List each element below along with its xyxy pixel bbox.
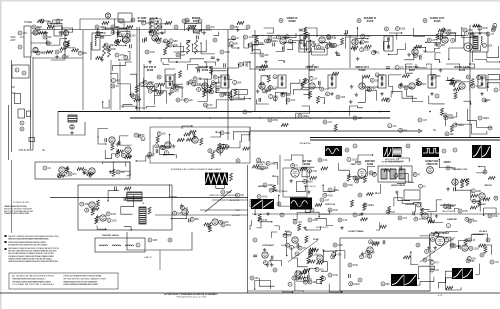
tube tube V11 [352, 39, 358, 45]
wire [306, 41, 314, 50]
svg-text:R: R [258, 159, 260, 162]
transformer 1st IF [92, 33, 100, 50]
resistor resistor R164 [445, 132, 454, 136]
wire [50, 23, 62, 28]
capacitor C9 [441, 33, 443, 37]
svg-text:R: R [451, 244, 453, 247]
svg-text:R: R [415, 218, 417, 221]
tube tube V34 [427, 167, 434, 174]
junction [461, 27, 462, 28]
svg-text:3.3K: 3.3K [312, 171, 317, 173]
capacitor capacitor C60 [310, 208, 314, 212]
syncroguide transformer [139, 207, 146, 224]
resistor R64 [303, 269, 310, 272]
ground [353, 47, 357, 51]
svg-text:470K: 470K [493, 216, 499, 218]
resistor resistor R143 [115, 153, 119, 157]
capacitor C13 [118, 141, 120, 145]
capacitor capacitor C18 [360, 40, 369, 44]
svg-text:C: C [420, 185, 422, 188]
vert osc box [283, 168, 307, 197]
junction [410, 251, 411, 252]
resistor resistor R15 [478, 26, 488, 30]
wire [241, 127, 250, 143]
capacitor capacitor C98 [233, 80, 242, 84]
resistor R2 [47, 26, 54, 29]
tube tube V9 [280, 38, 286, 44]
ground [356, 57, 360, 61]
capacitor C16 [454, 187, 456, 191]
capacitor C8 [330, 43, 332, 47]
junction [173, 46, 174, 47]
capacitor capacitor C47 [453, 148, 457, 152]
resistor resistor R3 [20, 127, 24, 131]
svg-text:R: R [158, 40, 160, 43]
wire [264, 28, 274, 33]
resistor R13 [415, 45, 422, 48]
waveform photo W7 [251, 199, 274, 209]
svg-text:1MEG: 1MEG [358, 178, 365, 180]
capacitor capacitor C56 [303, 179, 313, 183]
svg-text:10K: 10K [162, 134, 167, 136]
svg-text:68K: 68K [174, 41, 179, 43]
tube tube V31 [212, 219, 218, 225]
capacitor capacitor C33 [416, 82, 426, 86]
ground [95, 218, 99, 222]
svg-text:C: C [491, 261, 493, 264]
svg-text:C: C [354, 214, 356, 217]
resistor R5 [165, 22, 172, 25]
tube tube V10 [319, 37, 325, 43]
resistor R98 [177, 139, 184, 142]
svg-text:R: R [266, 40, 268, 43]
wire [212, 68, 226, 75]
resistor resistor R58 [298, 114, 309, 118]
resistor R126 [148, 207, 151, 214]
wire [207, 100, 232, 108]
resistor R83 [255, 35, 258, 42]
resistor resistor R117 [62, 55, 70, 59]
wire [68, 43, 75, 48]
resistor resistor R161 [366, 250, 376, 254]
svg-text:AGC: AGC [285, 230, 290, 233]
wire [446, 64, 460, 69]
capacitor C34 [260, 83, 264, 85]
resistor resistor R165 [450, 243, 454, 247]
junction [413, 203, 414, 204]
svg-text:RES ISOLATION AT ALL NORMAL TH: RES ISOLATION AT ALL NORMAL THIS AT ALL … [8, 252, 55, 255]
capacitor capacitor C5 [22, 71, 26, 75]
svg-text:.047: .047 [194, 82, 199, 84]
junction [283, 61, 284, 62]
svg-text:HEIGHT: HEIGHT [258, 186, 267, 188]
svg-text:1500: 1500 [364, 50, 370, 52]
resistor R31 [184, 133, 191, 136]
resistor resistor R141 [148, 152, 156, 156]
capacitor C32 [386, 67, 390, 69]
capacitor capacitor C107 [447, 204, 456, 208]
capacitor capacitor C97 [172, 85, 182, 89]
svg-text:R: R [267, 162, 269, 165]
svg-text:470K: 470K [273, 120, 279, 122]
svg-text:68K: 68K [235, 27, 240, 29]
capacitor C28 [187, 81, 189, 85]
phase det coil a [381, 169, 387, 179]
waveform photo W3 [393, 147, 402, 157]
junction [188, 30, 189, 31]
svg-text:R: R [112, 26, 114, 29]
capacitor capacitor C55 [221, 223, 231, 227]
resistor resistor R129 [213, 75, 223, 79]
svg-text:R: R [481, 254, 483, 257]
wire [51, 59, 65, 61]
wire [189, 26, 197, 31]
wire [436, 230, 458, 233]
phase det coil b [390, 169, 396, 179]
capacitor capacitor C72 [289, 245, 299, 249]
svg-text:R: R [337, 96, 339, 99]
junction [367, 38, 368, 39]
resistor resistor R101 [250, 276, 259, 280]
capacitor capacitor C3 [46, 41, 50, 45]
svg-text:3.3K: 3.3K [370, 252, 375, 254]
wire [172, 80, 182, 84]
junction [204, 89, 205, 90]
svg-text:470K: 470K [111, 214, 117, 216]
capacitor capacitor C29 [192, 82, 202, 86]
svg-text:R: R [324, 121, 326, 124]
svg-text:TRANSFORMER VOLTAGE OHMS: TRANSFORMER VOLTAGE OHMS [4, 212, 30, 215]
wire [305, 28, 317, 36]
inductor inductor L1 [15, 68, 19, 72]
resistor R14 [135, 85, 138, 92]
resistor R124 [77, 167, 84, 170]
wire [232, 44, 239, 48]
svg-text:C: C [354, 117, 356, 120]
resistor resistor R128 [211, 81, 221, 85]
capacitor capacitor C20 [438, 35, 448, 39]
svg-text:10K: 10K [48, 37, 53, 39]
ground [265, 89, 269, 93]
capacitor capacitor C105 [394, 173, 403, 177]
resistor resistor R133 [175, 86, 184, 90]
ground [435, 214, 439, 218]
wire shield riser a [136, 27, 138, 112]
wire [278, 61, 284, 63]
svg-text:5%: 5% [288, 236, 291, 238]
wire [419, 266, 435, 278]
svg-text:C: C [448, 205, 450, 208]
wire diagonal 3 [288, 240, 318, 262]
ground [192, 133, 196, 137]
inductor inductor L8 [432, 74, 441, 78]
resistor resistor R51 [336, 95, 346, 99]
svg-text:.047: .047 [181, 55, 186, 57]
junction [204, 61, 205, 62]
svg-text:CONTRAST: CONTRAST [262, 244, 275, 247]
svg-text:.0015: .0015 [225, 192, 231, 194]
capacitor capacitor C87 [255, 41, 264, 45]
svg-text:R: R [220, 221, 222, 224]
junction [292, 291, 293, 292]
ground [330, 92, 334, 96]
svg-text:C: C [454, 149, 456, 152]
resistor resistor R9 [206, 25, 215, 29]
ground [223, 92, 227, 96]
resistor resistor R48 [176, 98, 186, 102]
junction [323, 249, 324, 250]
svg-text:R: R [373, 52, 375, 55]
capacitor capacitor C91 [36, 27, 40, 31]
junction [105, 143, 106, 144]
wire [284, 33, 296, 37]
svg-text:C: C [361, 41, 363, 44]
junction [269, 260, 270, 261]
capacitor C43 [383, 240, 385, 244]
resistor choke a [150, 21, 153, 33]
junction [107, 200, 108, 201]
ground [361, 252, 365, 256]
svg-text:R: R [207, 26, 209, 29]
inductor L3 [112, 245, 121, 246]
svg-text:R: R [214, 76, 216, 79]
wire [307, 64, 313, 66]
capacitor capacitor C89 [78, 51, 87, 55]
resistor resistor R28 [451, 38, 455, 42]
ground [484, 99, 488, 103]
resistor R96 [261, 65, 268, 68]
wire [475, 264, 479, 275]
junction [169, 134, 170, 135]
wire [446, 278, 461, 290]
svg-text:C: C [382, 283, 384, 286]
wire [182, 126, 192, 129]
note paragraph 2 [8, 255, 59, 263]
resistor R101 [334, 124, 337, 131]
resistor resistor R73 [372, 172, 376, 176]
resistor R41 [92, 208, 99, 211]
wire riser x309 [308, 33, 310, 100]
capacitor capacitor C109 [295, 252, 299, 256]
resistor resistor R13 [442, 28, 452, 32]
resistor choke c [187, 40, 190, 54]
svg-text:C: C [354, 145, 356, 148]
svg-text:C: C [321, 199, 323, 202]
capacitor capacitor C16 [327, 34, 337, 38]
resistor R103 [450, 125, 453, 132]
svg-text:1500: 1500 [400, 29, 406, 31]
resistor resistor R150 [323, 193, 333, 197]
wire [216, 183, 225, 188]
svg-text:330K: 330K [223, 222, 229, 224]
svg-text:R: R [473, 200, 475, 203]
waveform photo W4 [422, 147, 439, 157]
svg-text:R: R [49, 23, 51, 26]
wire [317, 279, 322, 283]
wire [154, 24, 168, 30]
resistor resistor R88 [458, 209, 468, 213]
svg-text:1MEG: 1MEG [271, 163, 278, 165]
svg-text:R: R [175, 26, 177, 29]
resistor resistor R148 [257, 158, 261, 162]
capacitor capacitor C61 [320, 198, 330, 202]
capacitor capacitor C76 [253, 238, 257, 242]
resistor beside waveform [230, 173, 233, 181]
wire diagonal 2 [420, 237, 455, 262]
svg-text:B+ BOOST: B+ BOOST [230, 200, 241, 202]
svg-text:R: R [251, 277, 253, 280]
svg-text:R: R [318, 46, 320, 49]
svg-text:.047: .047 [267, 91, 272, 93]
svg-text:R: R [300, 41, 302, 44]
wire [315, 218, 333, 225]
capacitor capacitor C14 [163, 39, 167, 43]
svg-text:R: R [156, 84, 158, 87]
wire [420, 234, 434, 246]
tuner box [24, 26, 31, 57]
resistor resistor R81 [338, 218, 348, 222]
wire bottom left outline [127, 232, 192, 250]
svg-text:R: R [448, 32, 450, 35]
wire 260v [155, 214, 248, 216]
tube tube V15 [202, 83, 208, 89]
resistor resistor R162 [235, 193, 244, 197]
capacitor capacitor C49 [43, 166, 52, 170]
resistor resistor R16 [486, 32, 495, 36]
wire [413, 202, 429, 209]
wire [233, 132, 249, 141]
junction [487, 87, 488, 88]
svg-text:C: C [395, 174, 397, 177]
resistor R82 [436, 33, 439, 40]
resistor resistor R113 [193, 29, 202, 33]
capacitor C21 [100, 36, 104, 38]
resistor resistor R77 [353, 176, 364, 180]
svg-text:C: C [274, 76, 276, 79]
resistor resistor R95 [309, 253, 319, 257]
resistor R62 [312, 249, 319, 252]
svg-text:1500: 1500 [474, 248, 480, 250]
wire [476, 167, 485, 173]
wire [119, 52, 130, 60]
svg-text:470K: 470K [463, 211, 469, 213]
resistor resistor R7 [158, 25, 162, 29]
svg-text:UNLESS THE UNLESS TRANSFORMER: UNLESS THE UNLESS TRANSFORMER FROM SHOWN… [8, 260, 59, 263]
resistor R118 [320, 276, 323, 283]
ground [446, 187, 450, 191]
capacitor capacitor C58 [263, 183, 274, 187]
horiz drive box [404, 190, 420, 200]
wire staircase [58, 112, 85, 136]
capacitor capacitor C23 [168, 43, 178, 47]
resistor R53 [461, 181, 464, 188]
wire [299, 40, 311, 52]
resistor resistor R120 [264, 39, 273, 43]
waveform photo W10 [452, 268, 473, 279]
resistor R56 [478, 199, 481, 206]
junction [65, 38, 66, 39]
svg-text:.047: .047 [331, 36, 336, 38]
junction [322, 185, 323, 186]
resistor resistor R112 [47, 22, 60, 26]
svg-text:THIS OHMS THIS FROM GROUND GRO: THIS OHMS THIS FROM GROUND GROUND TO [12, 278, 46, 280]
junction [429, 111, 431, 113]
resistor R57 [428, 220, 435, 223]
svg-text:R: R [346, 149, 348, 152]
inductor inductor L9 [395, 65, 404, 69]
svg-text:.005: .005 [341, 97, 346, 99]
svg-text:R: R [334, 244, 336, 247]
ground [399, 83, 403, 87]
capacitor C5 [145, 37, 147, 41]
resistor R12 [148, 30, 155, 33]
svg-text:C: C [116, 54, 118, 57]
wire [196, 63, 207, 68]
junction [458, 246, 459, 247]
svg-text:.001: .001 [23, 33, 28, 35]
svg-text:R: R [261, 54, 263, 57]
wire [459, 235, 484, 247]
svg-text:C: C [23, 72, 25, 75]
svg-text:.0015: .0015 [248, 37, 254, 39]
svg-text:R: R [122, 154, 124, 157]
svg-text:3.3K: 3.3K [216, 83, 221, 85]
junction [453, 85, 454, 86]
resistor resistor R22 [285, 35, 289, 39]
svg-text:3.3K: 3.3K [243, 64, 248, 66]
resistor resistor R103 [445, 238, 455, 242]
svg-text:R: R [478, 77, 480, 80]
svg-text:R: R [309, 170, 311, 173]
svg-text:C: C [495, 89, 497, 92]
resistor resistor R130 [238, 62, 248, 66]
wire stub 2 [12, 92, 16, 94]
resistor resistor R84 [471, 189, 481, 193]
svg-text:1500: 1500 [421, 84, 427, 86]
svg-text:1MEG: 1MEG [272, 41, 279, 43]
ground [307, 190, 311, 194]
capacitor capacitor C66 [363, 203, 374, 207]
ground [303, 226, 307, 230]
resistor resistor R11 [384, 27, 388, 31]
svg-text:C: C [311, 209, 313, 212]
resistor resistor R26 [325, 44, 336, 48]
part part M4 [357, 19, 361, 23]
junction [282, 93, 283, 94]
wire [391, 92, 417, 99]
svg-text:VERT OUT: VERT OUT [350, 164, 362, 166]
resistor resistor R159 [425, 249, 436, 253]
ground [66, 167, 70, 171]
capacitor capacitor C6 [40, 19, 50, 23]
capacitor capacitor C80 [358, 278, 362, 282]
resistor resistor R157 [315, 268, 324, 272]
capacitor capacitor C110 [332, 253, 342, 257]
junction [267, 75, 268, 76]
wire [228, 141, 240, 148]
wire [257, 99, 269, 104]
svg-text:M: M [186, 19, 188, 22]
capacitor capacitor C32 [417, 81, 421, 85]
svg-text:R: R [84, 170, 86, 173]
resistor resistor R14 [491, 28, 495, 32]
wire [102, 29, 113, 33]
wire [320, 97, 324, 103]
svg-text:VERT LIN: VERT LIN [325, 204, 335, 206]
wire [213, 32, 218, 36]
resistor resistor R1 [43, 35, 52, 39]
junction [315, 268, 316, 269]
